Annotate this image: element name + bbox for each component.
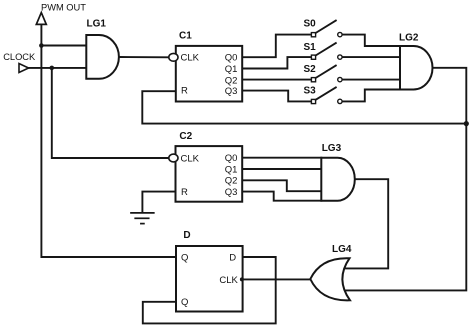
gate LG1 AND (86, 35, 119, 79)
svg-text:PWM OUT: PWM OUT (41, 3, 86, 13)
svg-text:C2: C2 (179, 131, 192, 142)
node junction on clock line (50, 66, 55, 71)
svg-text:Q1: Q1 (225, 64, 238, 75)
wire LG3 output down to LG4 input1 (346, 179, 388, 268)
wire CLOCK line from buffer to LG1 input2 (29, 67, 87, 69)
svg-text:CLK: CLK (181, 53, 200, 64)
svg-text:CLK: CLK (181, 153, 200, 164)
svg-text:Q1: Q1 (225, 164, 238, 175)
svg-text:Q3: Q3 (225, 86, 238, 97)
svg-text:S1: S1 (304, 42, 317, 53)
svg-text:S0: S0 (304, 19, 317, 30)
gate LG4 OR mirrored (310, 258, 350, 300)
wire S0 to LG2 input1 (342, 35, 400, 46)
svg-text:CLOCK: CLOCK (3, 52, 36, 62)
wire C1 Q1 to switch S1 (242, 57, 311, 68)
wire LG1 input1 branch from PWM net (41, 45, 86, 47)
PWM output arrow (36, 13, 46, 25)
wire D feedback loop Qbar to D input (143, 257, 276, 323)
wire C2 Q0 to LG3 input1 (242, 157, 321, 159)
counter C1 CLK bubble (169, 53, 178, 61)
counter C2 CLK bubble (169, 154, 178, 162)
svg-text:D: D (229, 253, 236, 264)
counter C2 box (176, 146, 243, 202)
svg-text:R: R (181, 85, 188, 96)
wire C1 Q3 to switch S3 (242, 91, 311, 102)
gate LG2 AND (400, 46, 433, 90)
wire C1 Q2 to switch S2 (242, 79, 311, 81)
wire C2 Q3 to LG3 input4 (242, 192, 321, 201)
wire LG4 output to D CLK (243, 278, 310, 280)
flip-flop D box (176, 246, 243, 312)
switch S2 (311, 66, 342, 82)
clock input buffer (19, 64, 29, 73)
svg-text:S3: S3 (304, 86, 317, 97)
gate LG3 AND (321, 158, 355, 201)
svg-text:Q: Q (181, 252, 188, 263)
svg-text:C1: C1 (179, 30, 192, 41)
svg-text:Q: Q (181, 297, 188, 308)
svg-text:R: R (181, 187, 188, 198)
wire LG2 output down to LG4 input2 (346, 68, 466, 291)
svg-text:LG3: LG3 (322, 143, 342, 154)
svg-text:Q0: Q0 (225, 53, 238, 64)
node junction reset net (464, 121, 469, 126)
wire LG1 output to C1 CLK (119, 56, 169, 58)
node junction on PWM net to LG1 (39, 43, 44, 48)
svg-text:S2: S2 (304, 64, 317, 75)
wire C2 Q2 to LG3 input3 (242, 180, 321, 191)
svg-text:D: D (183, 230, 190, 241)
counter C1 box (176, 46, 242, 102)
wire C1 Q0 to switch S0 (242, 35, 311, 58)
svg-text:Q2: Q2 (225, 176, 238, 187)
svg-text:Q3: Q3 (225, 187, 238, 198)
svg-text:Q2: Q2 (225, 75, 238, 86)
wire CLOCK branch to C2 CLK (52, 68, 170, 158)
wire S1 to LG2 input2 (342, 56, 400, 58)
wire C2 Q1 to LG3 input2 (242, 168, 321, 170)
wire S2 to LG2 input3 (342, 79, 400, 81)
node D CLK pin dot (240, 277, 244, 281)
svg-text:Q0: Q0 (225, 153, 238, 164)
wire C2 R to ground (142, 192, 175, 213)
svg-text:LG1: LG1 (87, 19, 107, 30)
ground (131, 213, 154, 224)
wire reset net from C1 R to LG2 output node (142, 91, 466, 123)
switch S3 (311, 87, 342, 103)
switch S0 (311, 21, 342, 37)
wire PWM net vertical: arrow down to D flip-flop Q output (41, 24, 175, 257)
svg-text:LG2: LG2 (399, 32, 419, 43)
wire S3 to LG2 input4 (342, 90, 400, 102)
svg-text:LG4: LG4 (332, 244, 352, 255)
svg-text:CLK: CLK (219, 275, 238, 286)
switch S1 (311, 43, 342, 59)
